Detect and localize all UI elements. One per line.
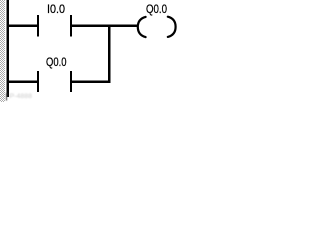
wire rung2 contact to branch corner (72, 81, 110, 83)
left power rail (6, 0, 9, 97)
contact Q0.0 left bar (37, 71, 39, 92)
branch wire vertical junction (108, 25, 110, 83)
contact Q0.0 right bar (70, 71, 72, 92)
svg-text:Q0.0: Q0.0 (46, 55, 67, 69)
coil Q0.0 right arc (168, 17, 176, 37)
wire rung1 rail to contact I0.0 (8, 25, 37, 27)
contact I0.0 left bar (37, 15, 39, 37)
svg-text:P-4888: P-4888 (10, 93, 33, 100)
watermark tick (6, 93, 7, 101)
wire rung2 rail to contact Q0.0 (8, 81, 37, 83)
wire rung1 contact to coil (72, 25, 139, 27)
svg-text:I0.0: I0.0 (47, 2, 65, 16)
contact I0.0 right bar (70, 15, 72, 37)
svg-text:Q0.0: Q0.0 (146, 2, 167, 16)
coil Q0.0 left arc (138, 17, 146, 37)
